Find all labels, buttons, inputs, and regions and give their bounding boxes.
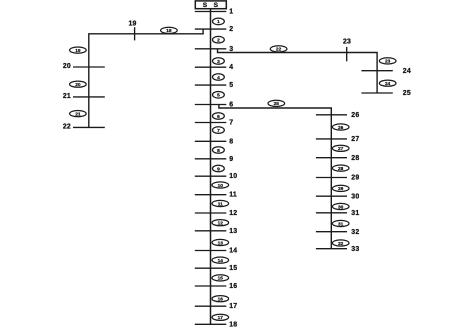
svg-text:1: 1 bbox=[229, 9, 233, 16]
svg-text:31: 31 bbox=[351, 210, 359, 217]
svg-text:19: 19 bbox=[75, 48, 81, 54]
svg-text:13: 13 bbox=[218, 240, 224, 246]
svg-text:18: 18 bbox=[166, 28, 172, 34]
svg-text:6: 6 bbox=[229, 102, 233, 109]
svg-text:27: 27 bbox=[338, 146, 344, 152]
svg-text:3: 3 bbox=[217, 59, 220, 65]
svg-text:19: 19 bbox=[128, 20, 136, 27]
svg-text:10: 10 bbox=[218, 183, 224, 189]
svg-text:28: 28 bbox=[351, 155, 359, 162]
svg-text:14: 14 bbox=[229, 248, 237, 255]
svg-text:21: 21 bbox=[63, 93, 71, 100]
svg-text:18: 18 bbox=[229, 321, 237, 328]
svg-text:32: 32 bbox=[338, 241, 344, 247]
svg-text:2: 2 bbox=[229, 26, 233, 33]
svg-text:4: 4 bbox=[217, 75, 220, 81]
svg-text:23: 23 bbox=[385, 59, 391, 65]
svg-text:5: 5 bbox=[229, 82, 233, 89]
svg-text:29: 29 bbox=[351, 175, 359, 182]
svg-text:27: 27 bbox=[351, 136, 359, 143]
svg-text:12: 12 bbox=[229, 210, 237, 217]
svg-text:5: 5 bbox=[217, 93, 220, 99]
svg-text:26: 26 bbox=[338, 125, 344, 131]
svg-text:6: 6 bbox=[217, 114, 220, 120]
svg-text:23: 23 bbox=[343, 39, 351, 46]
svg-text:3: 3 bbox=[229, 46, 233, 53]
svg-text:25: 25 bbox=[274, 101, 280, 107]
svg-text:1: 1 bbox=[217, 19, 220, 25]
svg-text:7: 7 bbox=[229, 120, 233, 127]
svg-text:9: 9 bbox=[217, 166, 220, 172]
svg-text:24: 24 bbox=[403, 68, 411, 75]
svg-text:30: 30 bbox=[338, 204, 344, 210]
svg-text:12: 12 bbox=[218, 220, 224, 226]
svg-text:15: 15 bbox=[218, 276, 224, 282]
svg-text:29: 29 bbox=[338, 186, 344, 192]
svg-text:8: 8 bbox=[229, 138, 233, 145]
svg-text:4: 4 bbox=[229, 64, 233, 71]
svg-text:13: 13 bbox=[229, 228, 237, 235]
svg-text:8: 8 bbox=[217, 148, 220, 154]
svg-text:22: 22 bbox=[63, 124, 71, 131]
svg-text:11: 11 bbox=[229, 192, 237, 199]
svg-text:17: 17 bbox=[218, 315, 224, 321]
svg-text:11: 11 bbox=[218, 201, 223, 207]
svg-text:25: 25 bbox=[403, 90, 411, 97]
svg-text:10: 10 bbox=[229, 173, 237, 180]
svg-text:32: 32 bbox=[351, 229, 359, 236]
svg-text:31: 31 bbox=[338, 221, 344, 227]
svg-text:20: 20 bbox=[75, 82, 81, 88]
svg-text:7: 7 bbox=[217, 128, 220, 134]
svg-text:26: 26 bbox=[351, 112, 359, 119]
svg-text:17: 17 bbox=[229, 303, 237, 310]
svg-text:22: 22 bbox=[276, 47, 282, 53]
svg-text:14: 14 bbox=[218, 258, 224, 264]
svg-text:16: 16 bbox=[229, 283, 237, 290]
svg-text:24: 24 bbox=[385, 81, 391, 87]
svg-text:16: 16 bbox=[218, 296, 224, 302]
svg-text:9: 9 bbox=[229, 156, 233, 163]
svg-text:28: 28 bbox=[338, 166, 344, 172]
svg-text:15: 15 bbox=[229, 265, 237, 272]
svg-text:33: 33 bbox=[351, 246, 359, 253]
svg-text:30: 30 bbox=[351, 193, 359, 200]
svg-text:21: 21 bbox=[75, 111, 81, 117]
svg-text:20: 20 bbox=[63, 63, 71, 70]
svg-text:2: 2 bbox=[217, 37, 220, 43]
